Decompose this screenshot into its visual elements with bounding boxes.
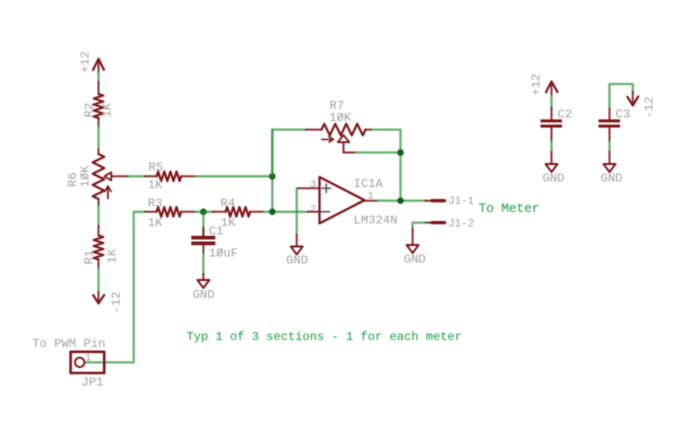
junction R4/pin2 node — [269, 209, 276, 216]
svg-text:J1-2: J1-2 — [448, 218, 474, 230]
svg-text:+12: +12 — [79, 51, 93, 73]
resistor R4 — [213, 207, 263, 217]
svg-text:1K: 1K — [106, 248, 120, 263]
LM324N label — [354, 214, 398, 228]
junction wiper node — [397, 149, 404, 156]
potentiometer R6 — [93, 150, 112, 206]
svg-text:LM324N: LM324N — [354, 214, 398, 228]
wire R7 right to output node — [371, 130, 400, 201]
wire output to J1-1 — [377, 200, 426, 202]
+12 supply arrow at C2 — [546, 82, 558, 96]
wire C2 to GND — [550, 141, 552, 152]
svg-text:C2: C2 — [558, 108, 573, 122]
wire R5 to inverting node — [195, 175, 273, 177]
svg-text:1: 1 — [85, 353, 91, 365]
svg-text:10K: 10K — [329, 111, 352, 125]
ground under C2 — [543, 152, 565, 185]
pin number 1 — [368, 190, 374, 202]
-12 net label — [110, 292, 124, 314]
wire R6 wiper to R5 — [111, 175, 145, 177]
svg-text:Typ 1 of 3 sections - 1 for ea: Typ 1 of 3 sections - 1 for each meter — [187, 330, 463, 344]
J1-2 pin name — [448, 218, 474, 230]
svg-text:R4: R4 — [221, 196, 236, 210]
wire J1-2 to GND — [413, 223, 426, 229]
svg-text:2: 2 — [310, 203, 316, 215]
To PWM Pin label — [32, 337, 105, 351]
slashed zero of R7 10K — [337, 114, 343, 121]
svg-text:10K: 10K — [79, 165, 93, 188]
ground under C1 — [193, 274, 215, 302]
R1 value 1K — [106, 248, 120, 263]
svg-text:1K: 1K — [148, 216, 163, 230]
+12 supply arrow — [93, 59, 104, 72]
ground at J1-2 — [404, 229, 426, 266]
JP1 name label — [81, 376, 103, 390]
ground at op-amp + input — [286, 235, 308, 268]
resistor R1 — [94, 226, 104, 268]
wire C3 to GND — [608, 141, 610, 152]
capacitor C2 — [541, 108, 563, 141]
JP1 pin number 1 — [85, 353, 91, 365]
wire R2 to R6 — [97, 126, 99, 150]
wire C1 to GND — [202, 253, 204, 274]
svg-text:GND: GND — [193, 288, 215, 302]
capacitor C1 — [191, 212, 215, 253]
svg-text:-12: -12 — [643, 97, 657, 119]
R6 value 10K — [79, 165, 93, 188]
svg-text:R3: R3 — [148, 196, 163, 210]
wire JP1 to R3 — [85, 212, 146, 363]
J1-2 pin stub — [426, 222, 445, 224]
pin 2 stub wire — [308, 211, 320, 213]
svg-text:GND: GND — [286, 254, 308, 268]
connector JP1 — [71, 352, 105, 373]
R2 name label — [83, 103, 97, 118]
R3 name label — [148, 196, 163, 210]
note: Typ 1 of 3 sections — [187, 330, 463, 344]
svg-text:10uF: 10uF — [209, 247, 238, 261]
C3 name label — [616, 108, 631, 122]
svg-text:1K: 1K — [101, 102, 115, 117]
ground under C3 — [601, 152, 623, 185]
wire R4 to inverting node — [263, 211, 308, 213]
svg-text:+12: +12 — [530, 74, 544, 96]
wire R3 to C1 node — [195, 211, 213, 213]
pin 3 stub wire — [298, 187, 320, 189]
wire inverting node vertical — [271, 130, 273, 212]
R3 value 1K — [148, 216, 163, 230]
+12 net label at C2 — [530, 74, 544, 96]
pin number 3 — [310, 179, 316, 191]
svg-text:To PWM Pin: To PWM Pin — [32, 337, 105, 351]
svg-text:GND: GND — [601, 171, 623, 185]
pin 1 output wire — [365, 200, 378, 202]
+12 net label — [79, 51, 93, 73]
R6 name label — [66, 172, 80, 187]
svg-text:C1: C1 — [209, 225, 224, 239]
svg-text:GND: GND — [404, 252, 426, 266]
svg-text:R5: R5 — [149, 161, 164, 175]
To Meter label — [479, 201, 540, 216]
svg-text:C3: C3 — [616, 108, 631, 122]
R4 value 1K — [221, 216, 236, 230]
pin number 2 — [310, 203, 316, 215]
slashed zero of R6 10K — [80, 174, 88, 179]
R7 name label — [330, 99, 345, 113]
svg-text:J1-1: J1-1 — [448, 196, 474, 208]
junction R5/feedback node — [269, 173, 276, 180]
resistor R5 — [145, 172, 195, 182]
resistor R2 — [94, 82, 104, 126]
-12 supply arrow at C3 — [627, 92, 638, 106]
R7 value 10K — [329, 111, 352, 125]
C1 value 10uF — [209, 247, 238, 261]
J1-1 pin name — [448, 196, 474, 208]
C2 name label — [558, 108, 573, 122]
wire node to R7 — [272, 130, 306, 177]
R4 name label — [221, 196, 236, 210]
wire R7 wiper to output node — [355, 151, 401, 153]
junction C1 node — [200, 209, 207, 216]
-12 net label at C3 — [643, 97, 657, 119]
J1-1 pin stub — [426, 200, 445, 202]
wire +12 to C2 — [550, 95, 552, 108]
svg-text:R1: R1 — [83, 250, 97, 265]
R1 name label — [83, 250, 97, 265]
R5 name label — [149, 161, 164, 175]
svg-text:IC1A: IC1A — [354, 177, 384, 191]
R2 value 1K — [101, 102, 115, 117]
wire R6 to R1 — [97, 206, 99, 227]
slashed zero of C1 10uF — [217, 249, 223, 256]
IC1A label — [354, 177, 384, 191]
wire R1 to -12 — [97, 268, 99, 293]
svg-text:To Meter: To Meter — [479, 201, 540, 216]
svg-text:JP1: JP1 — [81, 376, 103, 390]
-12 supply arrow — [93, 292, 104, 303]
C1 name label — [209, 225, 224, 239]
resistor R3 — [145, 207, 195, 217]
potentiometer R7 — [306, 124, 371, 153]
svg-text:-12: -12 — [110, 292, 124, 314]
svg-text:R2: R2 — [83, 103, 97, 118]
svg-text:1K: 1K — [148, 178, 163, 192]
wire pin3 to GND — [296, 188, 298, 235]
wire +12 to R2 — [97, 72, 99, 83]
svg-text:GND: GND — [543, 171, 565, 185]
op-amp IC1A — [320, 177, 365, 223]
junction output node — [397, 197, 404, 204]
R5 value 1K — [148, 178, 163, 192]
wire C3 to -12 — [610, 84, 633, 108]
capacitor C3 — [599, 108, 621, 141]
